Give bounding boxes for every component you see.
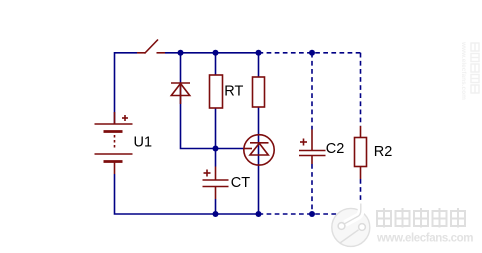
svg-text:www.elecfans.com: www.elecfans.com [376,233,473,245]
svg-text:U1: U1 [134,134,153,150]
svg-text:www.elecfans.com: www.elecfans.com [460,41,467,100]
svg-text:R2: R2 [374,144,393,160]
svg-text:CT: CT [231,175,250,191]
svg-text:C2: C2 [326,141,345,157]
svg-text:RT: RT [224,83,243,99]
